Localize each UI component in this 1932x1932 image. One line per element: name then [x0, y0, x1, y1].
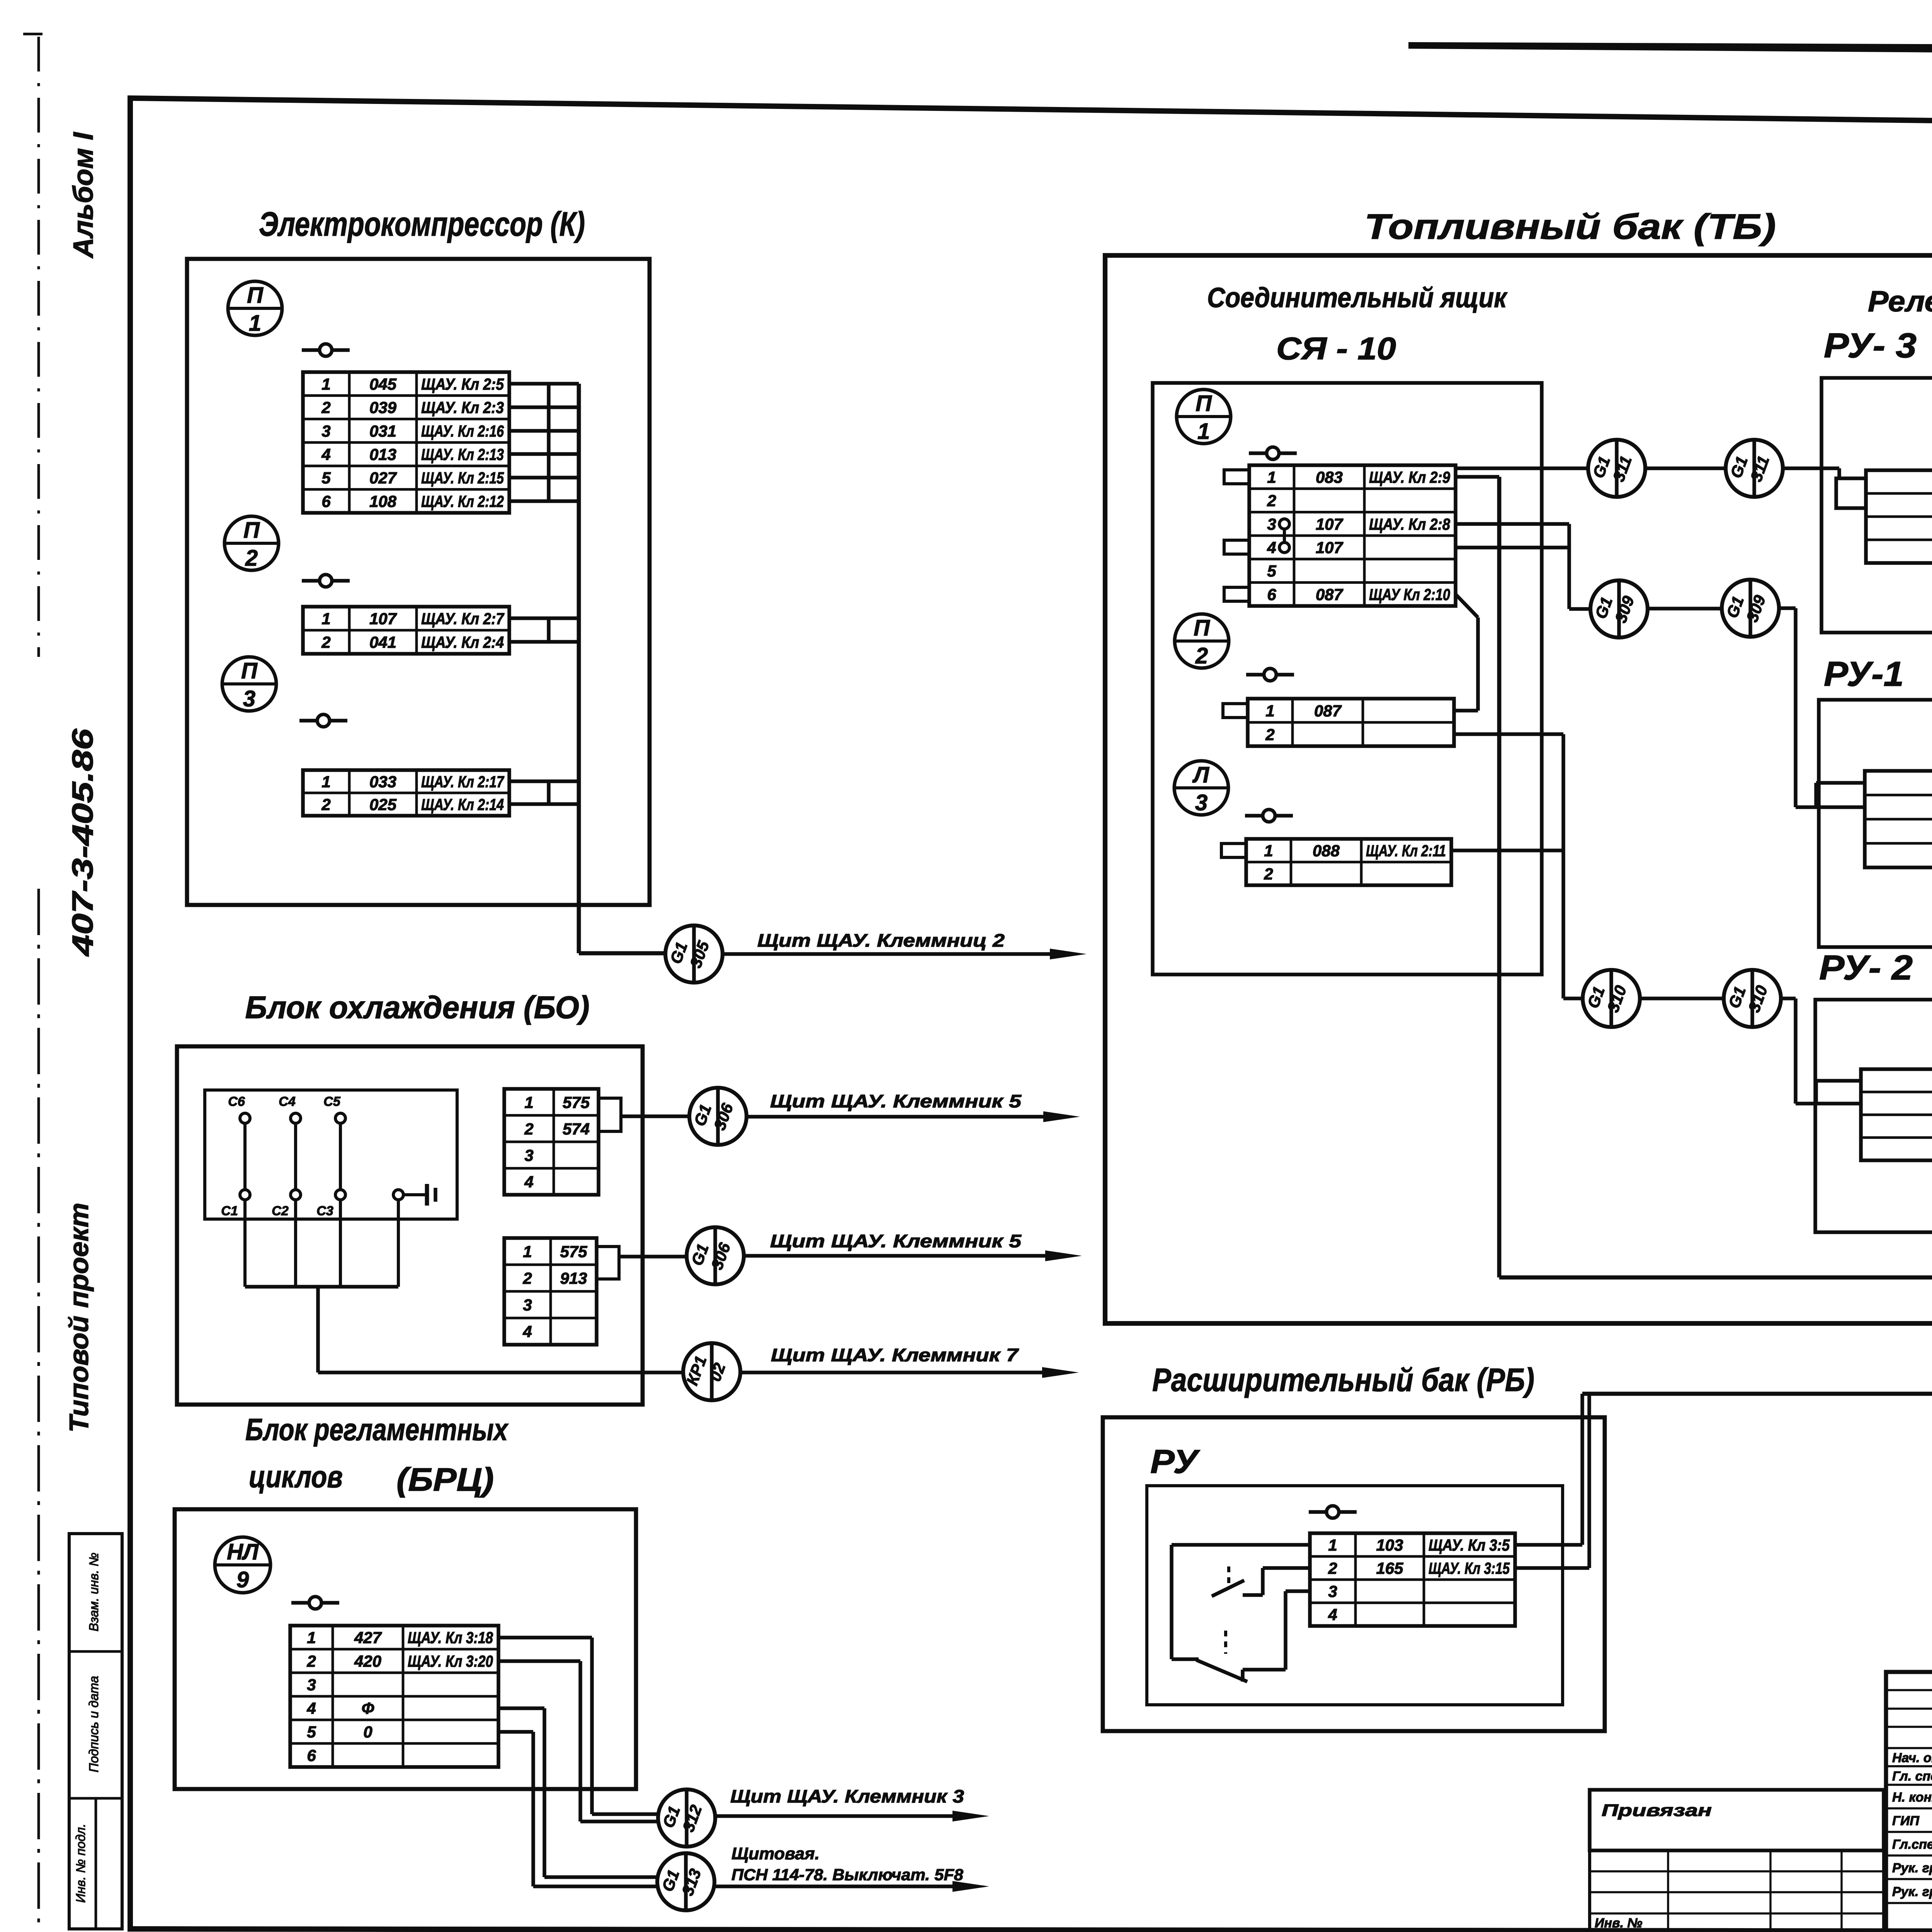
РБ contact 2 blade: [1241, 1670, 1245, 1682]
svg-text:ЩАУ. Кл 2:9: ЩАУ. Кл 2:9: [1369, 468, 1451, 486]
svg-text:Инв. № подл.: Инв. № подл.: [73, 1824, 88, 1903]
svg-text:С2: С2: [272, 1204, 289, 1218]
terminal С2: [291, 1190, 301, 1200]
привязан grid: [1590, 1850, 1884, 1931]
svg-text:3: 3: [1328, 1582, 1337, 1600]
svg-text:087: 087: [1314, 702, 1342, 720]
svg-text:2: 2: [1195, 643, 1208, 668]
relay table РУ-2: [1861, 1069, 1932, 1160]
wire with arrow to Щит ЩАУ Клеммник 2: [723, 952, 1067, 956]
connector П2: [224, 516, 279, 571]
switch П2: [302, 575, 350, 587]
wire П1 top to G1/311: [1456, 466, 1588, 470]
connector Л3 (СЯ): [1174, 761, 1228, 815]
svg-text:ЩАУ. Кл 2:3: ЩАУ. Кл 2:3: [421, 398, 504, 417]
svg-text:4: 4: [524, 1173, 533, 1191]
ground symbol: [403, 1193, 427, 1196]
svg-text:1: 1: [321, 610, 330, 628]
svg-text:Щит ЩАУ. Клеммник 3: Щит ЩАУ. Клеммник 3: [730, 1786, 964, 1806]
wire G1/311 into РУ-3: [1783, 466, 1839, 470]
svg-text:3: 3: [1267, 515, 1276, 533]
svg-text:6: 6: [321, 492, 331, 510]
svg-text:ЩАУ. Кл 3:18: ЩАУ. Кл 3:18: [408, 1629, 493, 1647]
svg-text:Рук. гр.: Рук. гр.: [1892, 1884, 1932, 1899]
svg-text:Расширительный бак (РБ): Расширительный бак (РБ): [1152, 1362, 1534, 1398]
left stub П1 row6: [1224, 587, 1249, 601]
svg-text:2: 2: [522, 1269, 532, 1287]
cable marker G1/309 right: [1722, 580, 1779, 637]
connector stub БО lower: [597, 1247, 619, 1279]
box БРЦ: [175, 1509, 636, 1789]
cable marker G1/310 left: [1583, 970, 1640, 1027]
РБ wire row2 up to Клеммник 3 line: [1515, 1566, 1589, 1570]
svg-text:Блок охлаждения (БО): Блок охлаждения (БО): [245, 990, 590, 1025]
svg-text:Н. контр.: Н. контр.: [1892, 1790, 1932, 1805]
wire Л3 row1 to bus C: [1451, 849, 1563, 852]
svg-text:ЩАУ. Кл 2:5: ЩАУ. Кл 2:5: [421, 375, 504, 393]
svg-text:575: 575: [563, 1093, 590, 1111]
svg-text:2: 2: [1265, 725, 1274, 743]
svg-text:Гл. спец.: Гл. спец.: [1892, 1769, 1932, 1784]
box РУ-2: [1815, 1000, 1932, 1232]
svg-text:ЩАУ. Кл 3:5: ЩАУ. Кл 3:5: [1429, 1536, 1510, 1554]
РБ contacts common wire row1: [1172, 1543, 1310, 1547]
svg-text:циклов: циклов: [249, 1459, 343, 1494]
terminal С4: [291, 1113, 301, 1123]
svg-text:С5: С5: [323, 1094, 341, 1109]
svg-text:ЩАУ. Кл 2:16: ЩАУ. Кл 2:16: [421, 422, 504, 440]
svg-text:3: 3: [321, 422, 330, 440]
cable marker G1/305: [665, 925, 723, 983]
svg-text:С3: С3: [316, 1204, 333, 1218]
svg-text:2: 2: [321, 398, 330, 417]
svg-text:1: 1: [307, 1629, 316, 1647]
connector stub БО upper: [599, 1098, 621, 1131]
outer sheet edge line left: [37, 37, 40, 657]
РБ wire row1 up to Клеммник 3 line: [1515, 1543, 1582, 1547]
svg-text:913: 913: [560, 1269, 587, 1287]
svg-text:2: 2: [245, 546, 258, 571]
box Блок охлаждения: [177, 1046, 643, 1405]
connector П1 (СЯ): [1177, 389, 1231, 444]
svg-text:Щит ЩАУ. Клеммник 5: Щит ЩАУ. Клеммник 5: [770, 1231, 1022, 1251]
svg-text:Альбом I: Альбом I: [68, 131, 99, 259]
bus C vertical to G1/310: [1561, 734, 1565, 998]
svg-text:Типовой проект: Типовой проект: [64, 1203, 94, 1433]
connector П1: [228, 281, 282, 336]
wires table П2 rows to bus: [509, 616, 579, 620]
terminal table П1 (СЯ-10): [1249, 465, 1456, 606]
cable marker G1/310 right: [1724, 970, 1781, 1027]
wire to G1/306 lower: [619, 1255, 687, 1259]
svg-text:083: 083: [1316, 468, 1343, 486]
cable marker G1/306 upper: [689, 1088, 747, 1145]
svg-text:3: 3: [307, 1676, 316, 1694]
terminal table П3 (К): [303, 770, 509, 816]
connector П3: [222, 657, 276, 711]
svg-text:ЩАУ. Кл 2:7: ЩАУ. Кл 2:7: [421, 610, 504, 628]
svg-text:ЩАУ. Кл 3:15: ЩАУ. Кл 3:15: [1429, 1559, 1510, 1577]
svg-text:4: 4: [306, 1699, 316, 1718]
svg-text:СЯ - 10: СЯ - 10: [1276, 331, 1396, 366]
svg-text:РУ-1: РУ-1: [1824, 655, 1904, 694]
wires table П3 rows to bus: [509, 779, 579, 783]
svg-text:РУ- 3: РУ- 3: [1824, 327, 1917, 365]
svg-text:П: П: [243, 518, 260, 543]
svg-text:1: 1: [1267, 468, 1276, 486]
bus A to G1/308 horizontal (Клеммник 2 line): [1499, 1276, 1932, 1280]
svg-text:Щит ЩАУ. Клеммник 7: Щит ЩАУ. Клеммник 7: [771, 1345, 1019, 1365]
svg-text:Реле: Реле: [1868, 285, 1932, 318]
left stub П1 row1: [1224, 470, 1249, 484]
svg-text:087: 087: [1316, 585, 1344, 604]
cable marker G1/311 right: [1726, 440, 1783, 497]
margin stamp boxes: [69, 1534, 122, 1929]
terminal С5: [335, 1113, 345, 1123]
ground terminal: [393, 1190, 403, 1200]
switch НЛ9: [291, 1597, 339, 1609]
box Расширительный бак: [1103, 1417, 1605, 1731]
svg-text:1: 1: [523, 1243, 532, 1261]
svg-text:ЩАУ. Кл 2:8: ЩАУ. Кл 2:8: [1369, 515, 1451, 533]
svg-text:1: 1: [1265, 702, 1274, 720]
svg-text:4: 4: [522, 1323, 532, 1341]
inner box РУ (РБ): [1147, 1486, 1563, 1705]
wire to G1/306 upper: [621, 1114, 689, 1118]
svg-text:2: 2: [321, 633, 330, 651]
РБ contact2 wire row3: [1286, 1589, 1310, 1593]
svg-text:4: 4: [1328, 1605, 1337, 1624]
svg-text:027: 027: [369, 469, 397, 487]
svg-text:2: 2: [1328, 1559, 1337, 1577]
svg-text:Гл.спец.эл.: Гл.спец.эл.: [1892, 1837, 1932, 1852]
svg-text:3: 3: [524, 1146, 533, 1164]
box СЯ-10: [1153, 383, 1542, 975]
svg-text:5: 5: [1267, 562, 1276, 580]
svg-text:045: 045: [369, 375, 397, 393]
svg-text:2: 2: [1267, 492, 1276, 510]
wire П2 row2 to bus C: [1454, 732, 1563, 736]
switch П3: [299, 714, 347, 727]
terminal table П2 (СЯ-10): [1248, 699, 1454, 746]
svg-text:Щитовая.: Щитовая.: [731, 1844, 820, 1863]
svg-text:П: П: [1194, 616, 1210, 641]
left stub П2 row1: [1223, 704, 1248, 718]
cable marker G1/309 left: [1590, 580, 1648, 638]
connector П2 (СЯ): [1175, 614, 1229, 668]
svg-text:Электрокомпрессор (К): Электрокомпрессор (К): [259, 205, 585, 243]
wire БРЦ row2 to G1/312: [498, 1659, 580, 1663]
bus B vertical to G1/309: [1567, 524, 1571, 609]
svg-text:1: 1: [249, 311, 261, 336]
cable marker G1/306 lower: [687, 1227, 744, 1284]
svg-text:9: 9: [236, 1567, 249, 1592]
wire П1 row6 to П2 row1 (087): [1456, 594, 1478, 617]
svg-text:С1: С1: [221, 1204, 238, 1218]
svg-text:ГИП: ГИП: [1892, 1814, 1920, 1828]
svg-text:107: 107: [1316, 538, 1344, 556]
svg-text:1: 1: [1328, 1536, 1337, 1554]
svg-text:013: 013: [369, 445, 396, 463]
svg-text:ЩАУ. Кл 2:13: ЩАУ. Кл 2:13: [421, 445, 504, 463]
svg-text:031: 031: [369, 422, 396, 440]
box РУ-1: [1819, 700, 1932, 947]
svg-text:Щит ЩАУ. Клеммниц 2: Щит ЩАУ. Клеммниц 2: [757, 930, 1005, 951]
svg-text:ЩАУ. Кл 2:12: ЩАУ. Кл 2:12: [421, 492, 504, 510]
svg-text:ЩАУ. Кл 2:15: ЩАУ. Кл 2:15: [421, 469, 504, 487]
svg-text:041: 041: [369, 633, 396, 651]
svg-text:6: 6: [307, 1747, 316, 1765]
cable marker КР1/02: [683, 1343, 740, 1400]
svg-text:025: 025: [369, 796, 397, 814]
svg-text:С4: С4: [279, 1094, 296, 1109]
svg-text:(БРЦ): (БРЦ): [396, 1461, 494, 1498]
wires motor windings: [243, 1123, 247, 1190]
svg-text:1: 1: [524, 1093, 533, 1111]
cable marker G1/313: [657, 1853, 714, 1910]
svg-text:3: 3: [1195, 790, 1207, 815]
svg-text:Л: Л: [1192, 762, 1209, 787]
cable marker G1/312: [658, 1789, 715, 1847]
cable marker G1/311 left: [1588, 440, 1645, 497]
svg-text:3: 3: [243, 686, 255, 711]
switch РУ (РБ): [1309, 1506, 1357, 1518]
bus A vertical: [1497, 477, 1502, 1277]
svg-text:4: 4: [1267, 538, 1276, 556]
svg-text:Инв. №: Инв. №: [1595, 1916, 1642, 1930]
svg-text:Ф: Ф: [362, 1699, 374, 1718]
box Топливный бак: [1105, 255, 1932, 1323]
svg-text:6: 6: [1267, 585, 1276, 604]
РБ contact 1 actuator dashes: [1227, 1566, 1230, 1586]
terminal table БО lower: [504, 1238, 597, 1345]
РБ contact1 wire row2: [1263, 1566, 1310, 1570]
svg-text:Щит ЩАУ. Клеммник 5: Щит ЩАУ. Клеммник 5: [770, 1091, 1022, 1111]
title block: [1886, 1672, 1932, 1931]
svg-text:2: 2: [321, 796, 330, 814]
svg-text:1: 1: [321, 375, 330, 393]
left stub Л3 row1: [1221, 844, 1246, 857]
vertical bus К to cable G1-305: [577, 384, 581, 953]
svg-text:3: 3: [523, 1296, 532, 1314]
left stub П1 row4: [1224, 540, 1249, 554]
switch П1 (СЯ): [1249, 447, 1297, 459]
svg-text:РУ: РУ: [1150, 1443, 1200, 1480]
box Электрокомпрессор: [187, 259, 650, 905]
svg-text:2: 2: [524, 1120, 533, 1138]
svg-text:033: 033: [369, 773, 396, 791]
svg-text:1: 1: [1197, 419, 1210, 444]
inner box cooling unit motor: [205, 1090, 457, 1219]
svg-text:Блок регламентных: Блок регламентных: [245, 1412, 509, 1447]
connector bracket П2 (К): [547, 617, 551, 643]
привязан box: [1590, 1790, 1884, 1850]
svg-text:575: 575: [560, 1243, 587, 1261]
svg-text:ЩАУ. Кл 2:17: ЩАУ. Кл 2:17: [421, 773, 504, 791]
svg-text:ЩАУ. Кл 3:20: ЩАУ. Кл 3:20: [408, 1652, 493, 1670]
svg-text:НЛ: НЛ: [227, 1539, 259, 1565]
svg-text:5: 5: [307, 1723, 316, 1741]
relay table РУ-1: [1865, 771, 1932, 867]
svg-text:088: 088: [1313, 842, 1340, 860]
svg-text:Привязан: Привязан: [1602, 1801, 1712, 1820]
relay table РУ-3: [1866, 470, 1932, 563]
connector stub РУ-3 left: [1836, 478, 1866, 508]
РБ contact 2 actuator dashes: [1224, 1631, 1227, 1654]
svg-text:Рук. гр.: Рук. гр.: [1892, 1861, 1932, 1876]
wire П1 row3 to bus B: [1456, 522, 1569, 526]
switch Л3 (СЯ): [1245, 810, 1293, 822]
jumper rows 3-4: [1279, 519, 1289, 529]
terminal С1: [240, 1190, 250, 1200]
svg-text:0: 0: [363, 1723, 372, 1741]
scan artifact streak top center: [1408, 42, 1932, 54]
svg-text:427: 427: [354, 1629, 382, 1647]
svg-text:ЩАУ Кл 2:10: ЩАУ Кл 2:10: [1369, 585, 1450, 604]
svg-text:4: 4: [321, 445, 330, 463]
svg-text:2: 2: [1264, 865, 1273, 883]
svg-text:5: 5: [321, 469, 331, 487]
terminal table П2 (К): [303, 607, 509, 654]
terminal table П1 (К): [303, 372, 509, 513]
svg-text:Взам. инв. №: Взам. инв. №: [87, 1553, 101, 1631]
svg-text:Подпись и дата: Подпись и дата: [87, 1676, 101, 1772]
box РУ-3: [1821, 378, 1932, 633]
wire G1/309 down to РУ-1: [1779, 606, 1796, 610]
wire БРЦ row5 to G1/313: [498, 1730, 533, 1734]
svg-text:Нач. отд.: Нач. отд.: [1892, 1751, 1932, 1765]
svg-text:Соединительный ящик: Соединительный ящик: [1207, 282, 1508, 313]
svg-text:107: 107: [1316, 515, 1344, 533]
svg-text:ЩАУ. Кл 2:11: ЩАУ. Кл 2:11: [1366, 842, 1446, 860]
connector bracket П3 (К): [547, 780, 551, 805]
svg-text:РУ- 2: РУ- 2: [1819, 949, 1913, 987]
svg-text:П: П: [1196, 391, 1212, 416]
relay table РУ (РБ): [1310, 1533, 1515, 1626]
svg-text:107: 107: [369, 610, 397, 628]
switch П1: [302, 344, 350, 356]
svg-text:ЩАУ. Кл 2:4: ЩАУ. Кл 2:4: [421, 633, 504, 651]
wire П1 row1 to bus A: [1456, 475, 1499, 479]
svg-text:П: П: [247, 283, 264, 308]
wire G1/310 down to РУ-2: [1781, 997, 1796, 1000]
switch П2 (СЯ): [1246, 668, 1294, 681]
РБ contact 1 blade: [1212, 1580, 1244, 1596]
svg-text:1: 1: [321, 773, 330, 791]
connector bracket П1 (К): [547, 383, 551, 502]
svg-text:574: 574: [563, 1120, 590, 1138]
wire БРЦ row4 to G1/313: [498, 1706, 544, 1710]
terminal table Л3 (СЯ-10): [1246, 839, 1451, 885]
svg-text:407-3-405.86: 407-3-405.86: [66, 728, 99, 957]
terminal table БО upper: [504, 1089, 599, 1195]
svg-text:039: 039: [369, 398, 397, 417]
wire П1 row4 to bus B: [1456, 546, 1569, 549]
terminal С3: [335, 1190, 345, 1200]
svg-text:108: 108: [369, 492, 397, 510]
svg-text:103: 103: [1376, 1536, 1403, 1554]
connector НЛ9: [215, 1537, 270, 1593]
terminal table БРЦ: [290, 1626, 498, 1767]
svg-text:С6: С6: [228, 1094, 245, 1109]
svg-text:ПСН 114-78. Выключат. 5F8: ПСН 114-78. Выключат. 5F8: [731, 1866, 964, 1884]
svg-text:420: 420: [354, 1652, 381, 1670]
svg-text:Топливный бак (ТБ): Топливный бак (ТБ): [1364, 207, 1776, 247]
svg-text:1: 1: [1264, 842, 1273, 860]
wire БРЦ row1 to G1/312: [498, 1636, 592, 1639]
wires table П1 rows to bus: [509, 382, 579, 386]
svg-text:ЩАУ. Кл 2:14: ЩАУ. Кл 2:14: [421, 796, 504, 814]
wires to bottom bus: [243, 1200, 247, 1287]
svg-text:2: 2: [306, 1652, 316, 1670]
Клеммник 3 horizontal line to G1/307: [1582, 1392, 1932, 1396]
svg-text:165: 165: [1376, 1559, 1403, 1577]
wire to cable КР1: [316, 1287, 320, 1372]
terminal С6: [240, 1113, 250, 1123]
svg-text:П: П: [241, 658, 258, 684]
